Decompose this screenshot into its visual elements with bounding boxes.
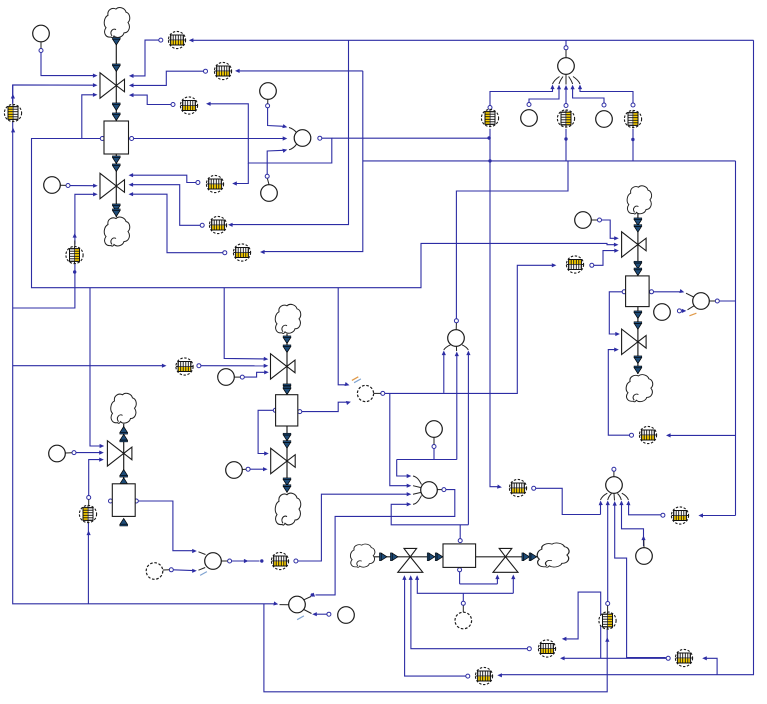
aux A9: [218, 369, 235, 386]
aux A16: [289, 596, 306, 613]
wire trunk branch to valve V3 left-top: [224, 288, 268, 362]
table function T14: [566, 256, 583, 273]
wire T6 to valve V2 right-bottom: [129, 192, 227, 255]
wire T4 to valve V2 right-top: [129, 173, 200, 184]
wire T20 out to valve VH1: [409, 575, 532, 650]
wire T7 to valve V2 left-bottom: [73, 192, 98, 244]
valve VH1: [398, 548, 423, 572]
cloud CL9: [537, 543, 569, 567]
stock S5: [443, 544, 476, 568]
aux A15: [205, 553, 222, 570]
aux A4: [261, 185, 278, 202]
table function T7: [66, 246, 83, 263]
stock S1: [104, 121, 129, 154]
flow stock S4 up to cloud CL5: [120, 424, 128, 526]
wire aux A10 output to T14 and A22: [381, 263, 557, 488]
valve V3: [271, 354, 296, 379]
wire A15 tick: [200, 572, 207, 576]
flow stock S1 to cloud CL2: [112, 154, 120, 217]
aux A5: [575, 212, 592, 229]
aux A8: [44, 177, 61, 194]
wire aux A2 to hub A3: [266, 104, 288, 130]
aux A1: [33, 25, 50, 42]
table function T12: [557, 110, 574, 127]
aux A14: [146, 563, 163, 580]
wire A23 fan to T20 upper: [562, 592, 601, 658]
wire T19 out to T20: [560, 656, 670, 660]
aux A6: [693, 293, 710, 310]
valve VH2: [493, 548, 518, 572]
wire stock S2 to aux A6: [650, 289, 694, 297]
aux A25: [455, 612, 472, 629]
flow cloud CL3 to stock S3: [283, 334, 291, 395]
wire hub A23 fans: [598, 467, 665, 657]
wire stock S1 to hub A3: [130, 136, 288, 140]
wire A18 branch to T5: [228, 40, 349, 227]
wire T3 to valve V1 right-bottom: [129, 93, 175, 107]
wire hub A18 fan stubs: [553, 75, 581, 85]
wire stock S1 to valve V1 left-bottom: [82, 93, 105, 141]
wire T16 out to valve V7 left-bottom: [608, 348, 633, 438]
flow stock S3 to cloud CL4: [283, 426, 291, 493]
wire stock S5 loop to valves: [415, 568, 515, 594]
table function T16: [639, 426, 656, 443]
table function T18: [599, 612, 616, 629]
wire loop riser to T19 row: [702, 656, 717, 675]
flow cloud CL1 to stock S1: [112, 37, 120, 121]
wire aux A25 joins valve line: [461, 593, 465, 605]
valve V2: [100, 173, 125, 198]
valve V1: [100, 73, 125, 98]
wire T11 column to T15: [488, 129, 502, 490]
cloud CL2: [104, 217, 129, 246]
wire aux A9 to valve V3 left-2nd: [240, 370, 268, 379]
wire bottom line to T10: [87, 523, 91, 604]
wire A1 to valve V1 left-top: [39, 49, 98, 78]
wire T17 out joins riser: [661, 513, 665, 517]
table function T11: [481, 109, 498, 126]
aux A10: [357, 385, 373, 401]
wire hub A23 fan stubs: [601, 493, 629, 500]
stock S4: [112, 484, 135, 517]
wire trunk drop to bottom line: [264, 604, 609, 692]
wire T22 to hub A22: [294, 492, 411, 563]
valve V4: [271, 448, 296, 473]
aux A7: [654, 304, 671, 321]
table function T19: [675, 649, 692, 666]
wire trunk branch to aux A10: [338, 288, 350, 388]
flow cloud CL8 to cloud CL9 horizontal: [373, 553, 537, 561]
wire T2 to valve V1 right-middle: [129, 69, 208, 87]
cloud CL4: [275, 493, 300, 525]
wire aux A13 to valve V4 left-bottom: [246, 467, 268, 471]
wire T5 to valve V2 right-middle: [129, 183, 205, 228]
wire T10 to valve V5 left-bottom: [87, 458, 104, 500]
wire stock S1 broadcast trunk: [32, 139, 619, 288]
wire A6 riser and branches: [666, 161, 736, 518]
table function T21: [475, 667, 492, 684]
table function T6: [233, 244, 250, 261]
wire aux A5 to valve V6 left-top: [598, 218, 619, 240]
wire aux A15 to T22: [228, 559, 264, 563]
aux A24: [636, 548, 653, 565]
aux A22: [421, 482, 438, 499]
cloud CL5: [111, 393, 136, 423]
wire aux A4 to hub A3: [265, 148, 288, 179]
wire T12 column: [564, 129, 567, 161]
wire aux A11 joins row to A22: [397, 445, 457, 479]
cloud CL6: [627, 186, 651, 214]
flow cloud CL6 to stock S2: [634, 214, 642, 276]
wire T1 to valve V1 right-top: [129, 38, 163, 78]
wire stock S2 loop to valve V7 left-top: [609, 290, 626, 336]
aux A17: [338, 607, 355, 624]
aux A2: [260, 83, 277, 100]
valve V5: [107, 441, 131, 466]
wire trunk branch via T7 bottom: [13, 264, 77, 308]
cloud CL7: [626, 375, 653, 402]
wire trunk branch to T9: [13, 364, 167, 368]
wire hub A3 output to T3 T4 and T11: [206, 102, 491, 186]
wire T14 out to valve V6 left-3rd: [590, 249, 619, 268]
wire A24 to hub A23 stub: [643, 540, 645, 548]
wire aux A17 to aux A16: [280, 597, 331, 620]
aux A12: [49, 445, 66, 462]
wire stock S5 top to A22 row: [391, 502, 468, 542]
wire hub A3 fan stubs: [289, 128, 297, 150]
cloud CL8: [350, 544, 374, 567]
wire hub A22 fan stubs: [413, 476, 422, 504]
wire T9 out to valve V3 left-top: [197, 364, 268, 368]
wire T8 to valve V1 left-middle: [11, 83, 98, 103]
table function T3: [180, 97, 197, 114]
aux A13: [226, 462, 243, 479]
table function T20: [538, 640, 555, 657]
wire hub A22 output to A16: [309, 488, 455, 599]
wire hub A18 output ring: [564, 40, 568, 50]
wire aux A7 to aux A6: [677, 306, 696, 316]
table function T2: [214, 62, 231, 79]
wire long left trunk: [11, 85, 279, 606]
table function T9: [176, 358, 193, 375]
table function T4: [206, 175, 223, 192]
wire T13 column: [631, 129, 634, 161]
aux A19: [521, 110, 538, 127]
wire hub A21 fan stubs: [444, 345, 469, 351]
aux A11: [426, 421, 443, 438]
wire stock S3 loop to valve V4 left-top: [258, 408, 277, 455]
table function T1: [168, 31, 185, 48]
aux A3: [294, 130, 311, 147]
aux A18: [558, 58, 575, 75]
table function T10: [79, 505, 96, 522]
wire T21 out to valve VH1: [402, 575, 470, 678]
wire aux A14 to aux A15: [163, 568, 205, 573]
table function T5: [209, 216, 226, 233]
wire T15 out: [532, 486, 601, 514]
aux A23: [606, 477, 623, 494]
cloud CL1: [104, 8, 129, 38]
wire stock S3 to aux A10: [298, 377, 361, 414]
aux A20: [596, 111, 613, 128]
aux A21: [448, 330, 465, 347]
wire mid collector line: [235, 69, 736, 254]
table function T22: [271, 552, 288, 569]
wire A21 output riser: [454, 161, 568, 323]
wire aux A8 to valve V2 left-middle: [66, 184, 98, 188]
wire shape-to-ring stubs: [41, 42, 614, 612]
table function T15: [509, 479, 526, 496]
cloud CL3: [275, 304, 300, 333]
wire top long line A18 to T1: [189, 38, 754, 42]
wire trunk branch to valve V5: [90, 288, 104, 448]
stock S2: [626, 276, 650, 307]
table function T13: [624, 110, 641, 127]
wire hub A21 input fans: [442, 351, 471, 525]
wire aux A12 to valve V5 left-middle: [72, 451, 104, 455]
valve V6: [622, 232, 647, 257]
wire hub A18 input fans: [488, 85, 635, 110]
valve V7: [622, 329, 647, 354]
flow stock S2 to cloud CL7: [634, 307, 642, 374]
table function T17: [671, 507, 688, 524]
stock S3: [276, 395, 298, 426]
wire A18 right loop down: [497, 40, 753, 677]
table function T8: [4, 104, 21, 121]
wire stock S4 to aux A15: [109, 499, 206, 555]
